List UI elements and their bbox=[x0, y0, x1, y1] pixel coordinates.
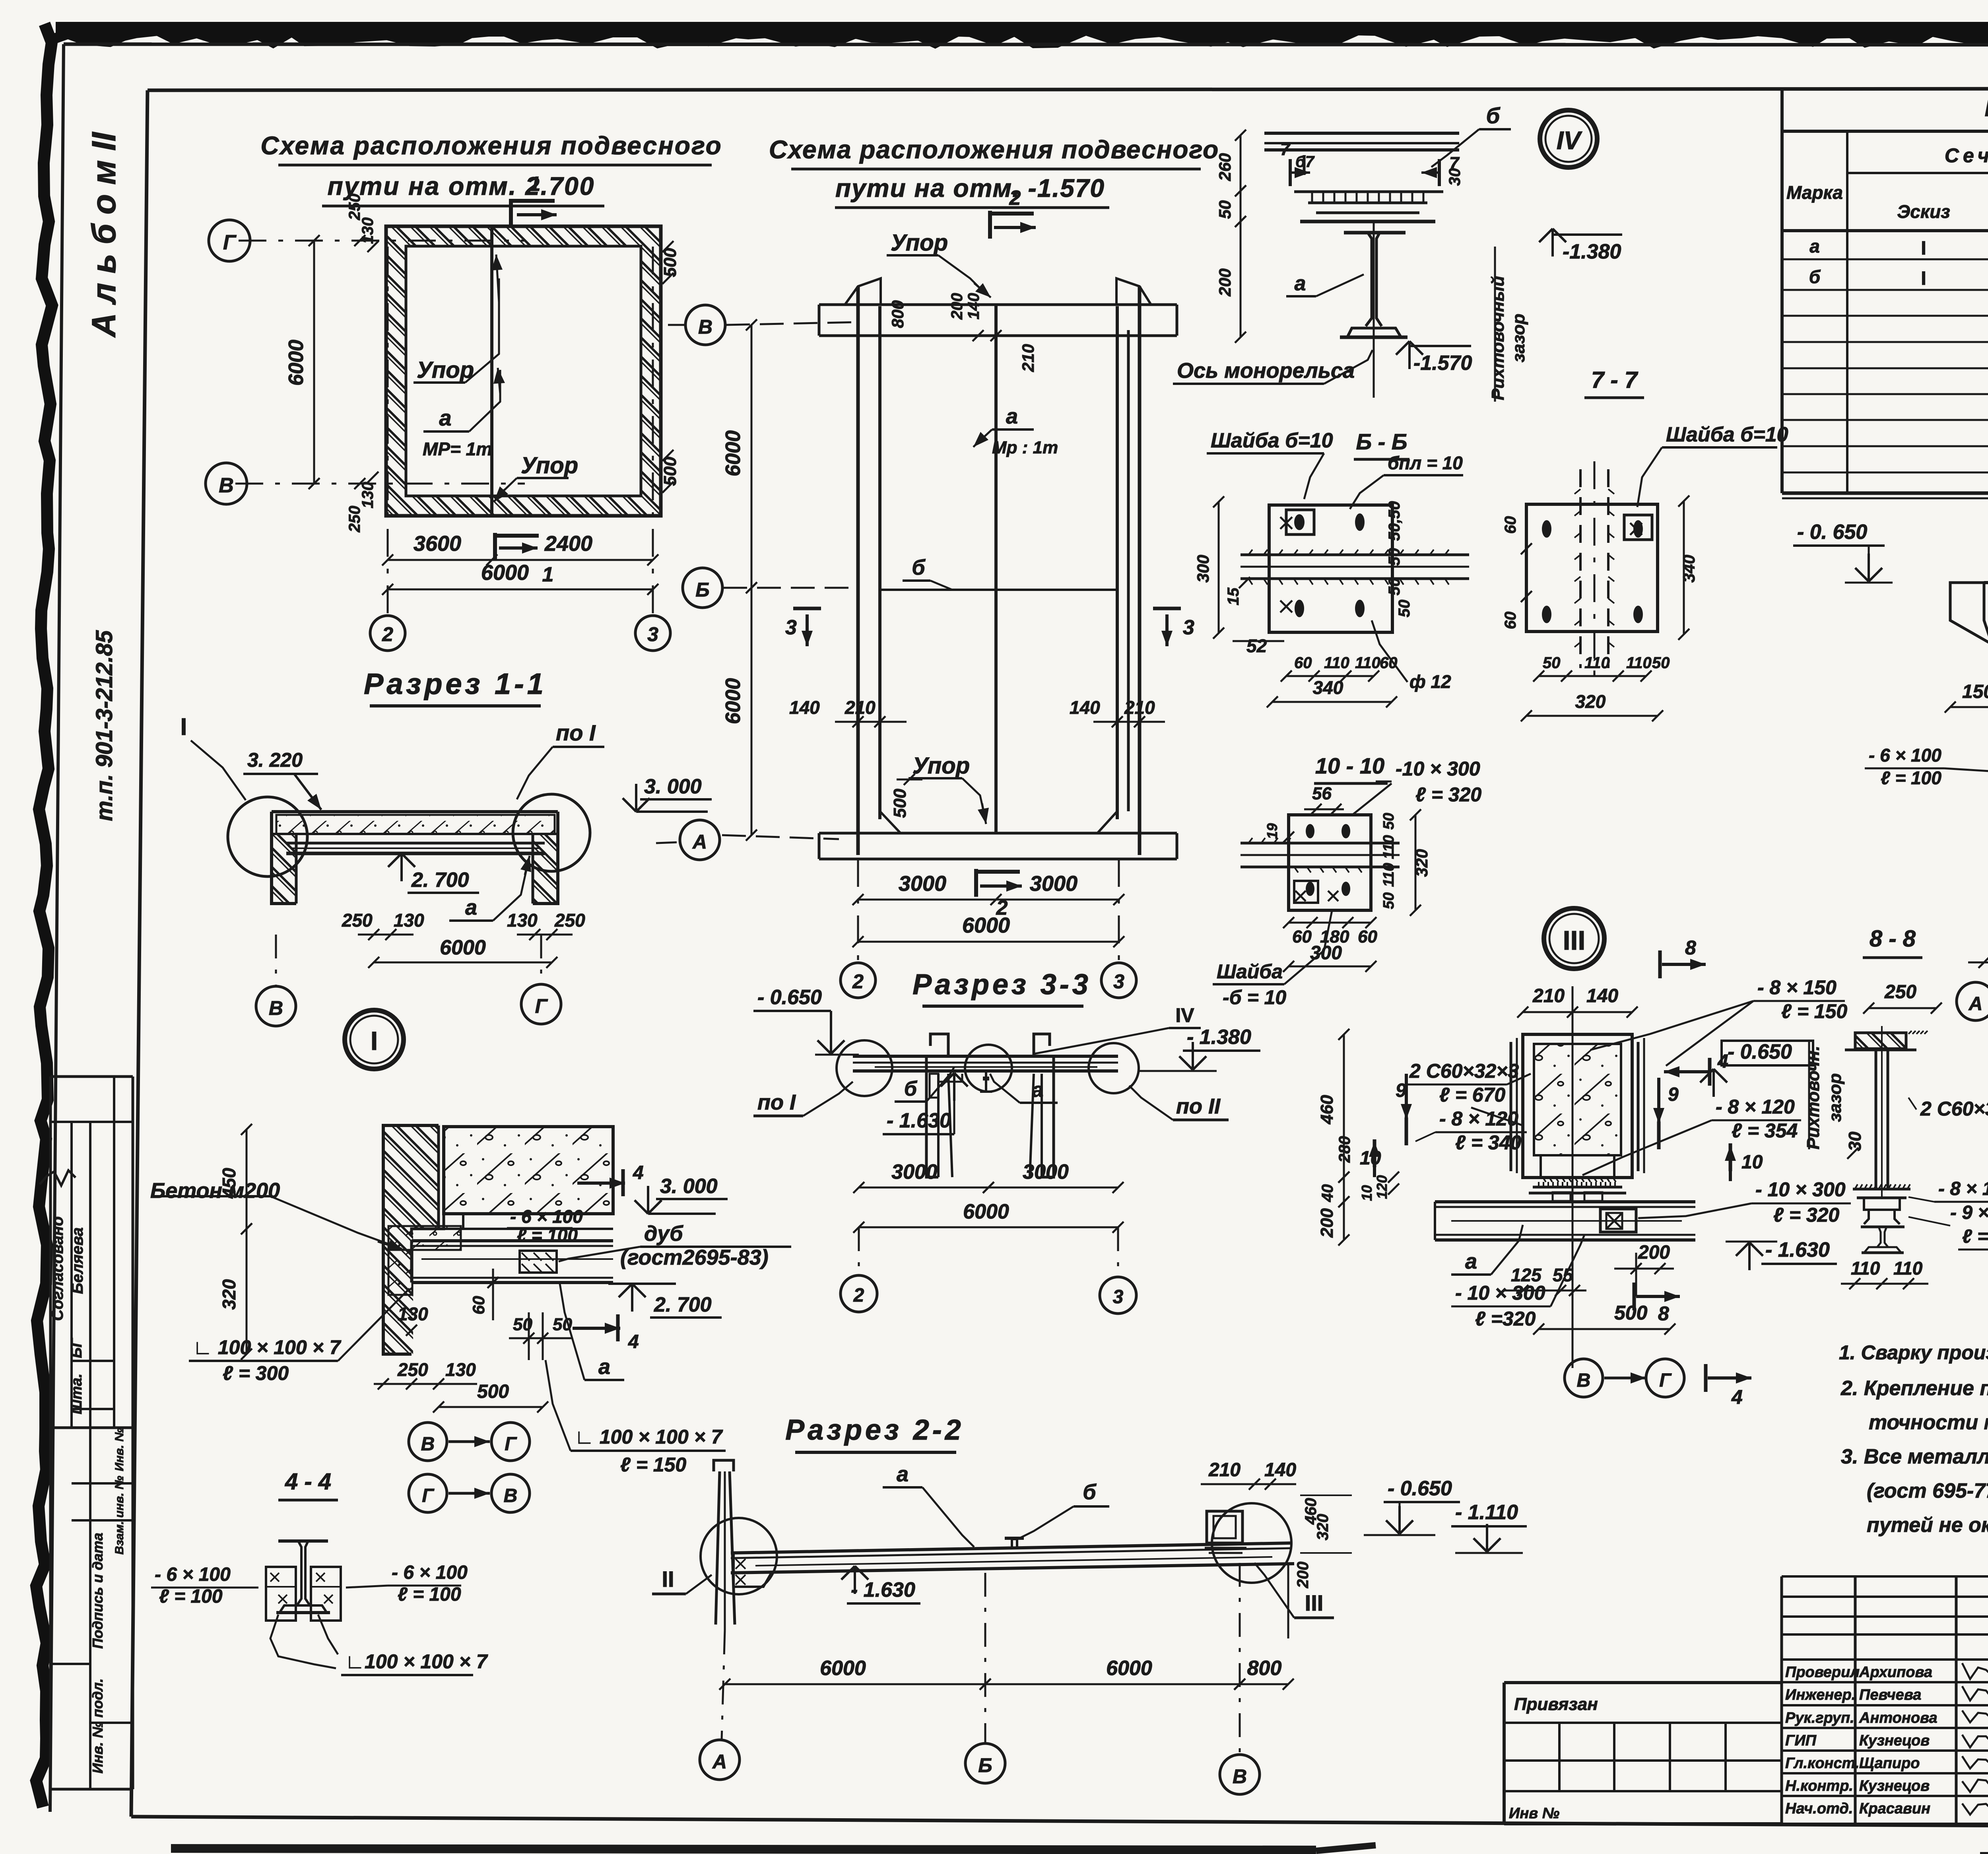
node III base plates bbox=[1529, 1182, 1626, 1201]
svg-text:3000: 3000 bbox=[891, 1160, 938, 1184]
detail 10-10 dims bottom bbox=[1283, 917, 1377, 972]
svg-text:130: 130 bbox=[507, 910, 538, 931]
svg-text:6000: 6000 bbox=[722, 430, 745, 476]
node I label dub bbox=[559, 1222, 791, 1269]
detail IV label b bbox=[1431, 103, 1511, 167]
label 6-6 bbox=[1354, 429, 1409, 459]
razrez 2-2 left column bbox=[714, 1460, 735, 1631]
svg-text:110: 110 bbox=[1355, 654, 1380, 672]
svg-text:В: В bbox=[698, 316, 712, 338]
plan 2.700 upor label bottom bbox=[494, 453, 578, 502]
razrez 2-2 dims 210 140 bbox=[1201, 1459, 1296, 1490]
razrez 2-2 label b bbox=[1018, 1480, 1109, 1539]
node I elev 2.700 bbox=[608, 1284, 722, 1318]
svg-text:6000: 6000 bbox=[963, 1200, 1009, 1223]
svg-text:ℓ = 100: ℓ = 100 bbox=[159, 1586, 223, 1607]
plan 2.700 section mark 1 bottom bbox=[495, 533, 553, 586]
node I label L100x100x7 l300 bbox=[189, 1288, 410, 1384]
svg-text:пути на отм. 2.700: пути на отм. 2.700 bbox=[328, 172, 595, 200]
node III beam below bbox=[1435, 1202, 1695, 1240]
node I dim 60 bbox=[469, 1269, 499, 1320]
svg-text:Шайба: Шайба bbox=[1217, 960, 1283, 983]
razrez 2-2 beam bbox=[731, 1543, 1294, 1573]
svg-text:Г: Г bbox=[505, 1434, 517, 1455]
svg-text:2. Крепление подкранового пути: 2. Крепление подкранового пути-болтовое.… bbox=[1840, 1377, 1988, 1400]
section 8-8 bottom assembly bbox=[1853, 1184, 1910, 1224]
plan 2.700 axis line 3 bbox=[652, 247, 654, 615]
svg-text:250: 250 bbox=[397, 1359, 428, 1380]
svg-text:Гл.конст.: Гл.конст. bbox=[1785, 1755, 1859, 1772]
svg-text:60: 60 bbox=[1292, 927, 1312, 946]
svg-text:I: I bbox=[1921, 268, 1926, 289]
razrez 3-3 label b bbox=[895, 1067, 954, 1102]
svg-text:- 10 × 300: - 10 × 300 bbox=[1755, 1178, 1846, 1201]
svg-text:I: I bbox=[181, 713, 187, 740]
razrez 1-1 left wall bbox=[272, 812, 296, 904]
svg-text:30: 30 bbox=[1845, 1131, 1865, 1151]
detail 6-6 bpl label bbox=[1350, 453, 1463, 509]
svg-text:200: 200 bbox=[1215, 268, 1234, 297]
svg-text:460: 460 bbox=[1317, 1095, 1337, 1125]
svg-text:2: 2 bbox=[853, 1285, 864, 1306]
left margin label Album II bbox=[85, 132, 122, 338]
svg-text:а: а bbox=[1006, 404, 1018, 428]
section 4-4 label angle bbox=[270, 1615, 488, 1675]
svg-text:19: 19 bbox=[1264, 823, 1280, 839]
node III section 4 bbox=[1664, 1051, 1728, 1086]
svg-text:4: 4 bbox=[1717, 1051, 1728, 1072]
svg-text:- 8 × 150: - 8 × 150 bbox=[1757, 976, 1837, 999]
razrez 1-1 label a bbox=[449, 856, 531, 921]
svg-text:Рихтовочный: Рихтовочный bbox=[1488, 276, 1508, 400]
svg-text:ГИП: ГИП bbox=[1785, 1732, 1817, 1749]
razrez 2-2 dim 800 bbox=[1234, 1657, 1294, 1690]
detail IV center line bbox=[1373, 223, 1375, 398]
node I label -6x100 bbox=[507, 1206, 583, 1246]
svg-text:Инв. №: Инв. № bbox=[113, 1428, 126, 1471]
node III label 2S60 bbox=[1406, 1060, 1531, 1125]
svg-text:2: 2 bbox=[382, 623, 393, 645]
svg-text:800: 800 bbox=[1247, 1657, 1282, 1680]
node III section 9 marks bbox=[1396, 1074, 1679, 1149]
svg-text:250: 250 bbox=[346, 506, 363, 533]
svg-text:б: б bbox=[1083, 1480, 1097, 1504]
node III section 4 bottom bbox=[1706, 1364, 1751, 1408]
detail IV os monorelsa bbox=[1173, 350, 1373, 384]
detail 10-10 plate bbox=[1289, 815, 1371, 910]
svg-text:IV: IV bbox=[1557, 126, 1583, 155]
svg-text:- 9 × 320: - 9 × 320 bbox=[1950, 1202, 1988, 1223]
svg-text:Ось монорельса: Ось монорельса bbox=[1177, 359, 1355, 383]
svg-text:340: 340 bbox=[1313, 677, 1343, 698]
plan -1.570 section mark 2 bottom bbox=[976, 869, 1022, 919]
svg-text:ℓ = 150: ℓ = 150 bbox=[620, 1454, 686, 1476]
razrez 2-2 label III bbox=[1254, 1563, 1334, 1618]
detail 6-6 dims right bbox=[1386, 501, 1413, 617]
svg-text:6000: 6000 bbox=[285, 340, 308, 386]
privyazan label bbox=[1514, 1695, 1598, 1714]
svg-text:а: а bbox=[465, 896, 477, 919]
plan 2.700 label a Mr=1t bbox=[423, 368, 505, 459]
svg-text:а: а bbox=[1032, 1079, 1044, 1102]
svg-text:-1.570: -1.570 bbox=[1413, 352, 1472, 375]
plan -1.570 label b bbox=[903, 556, 952, 590]
svg-text:110: 110 bbox=[1324, 654, 1349, 672]
section 8-8 dims 110 110 bbox=[1841, 1258, 1928, 1289]
svg-text:ф 12: ф 12 bbox=[1409, 671, 1451, 692]
svg-text:бпл = 10: бпл = 10 bbox=[1388, 453, 1463, 473]
razrez 2-2 node circle right bbox=[1212, 1503, 1291, 1583]
label 4-4 bbox=[278, 1469, 338, 1500]
svg-text:3600: 3600 bbox=[414, 532, 461, 556]
razrez 3-3 label IV bbox=[1034, 1004, 1201, 1054]
svg-text:120: 120 bbox=[1374, 1175, 1390, 1199]
sheet torn top edge bbox=[56, 22, 1988, 43]
svg-text:6000: 6000 bbox=[1106, 1657, 1152, 1680]
svg-text:260: 260 bbox=[1215, 153, 1234, 181]
plan 2.700 axis circle V right bbox=[668, 305, 859, 345]
node II label -6x100 bbox=[1865, 745, 1988, 788]
plan 2.700 small dims top left bbox=[346, 194, 379, 252]
sheet torn left edge bbox=[36, 24, 52, 1807]
razrez 2-2 label a bbox=[883, 1462, 974, 1547]
node III label -8x150 bbox=[1590, 976, 1847, 1066]
svg-text:ℓ = 100: ℓ = 100 bbox=[1881, 768, 1941, 788]
detail 10-10 label -10x300 bbox=[1352, 758, 1481, 815]
detail IV hanger plates bbox=[1294, 192, 1443, 222]
svg-text:Г: Г bbox=[1659, 1370, 1672, 1391]
vedomost title bbox=[1985, 95, 1988, 123]
svg-text:по I: по I bbox=[556, 720, 596, 745]
svg-text:Щапиро: Щапиро bbox=[1859, 1755, 1920, 1772]
detail 10-10 shayba label bbox=[1213, 911, 1332, 1009]
axis dim 6000 vertical lower bbox=[722, 582, 757, 841]
node II column top flare bbox=[1950, 583, 1988, 644]
svg-text:130: 130 bbox=[398, 1304, 428, 1324]
svg-text:Г: Г bbox=[223, 231, 237, 254]
signature block grid bbox=[1782, 1576, 1988, 1824]
stamp text Inv N podl bbox=[89, 1678, 106, 1773]
node I rail beam bbox=[412, 1241, 613, 1283]
inv no label bbox=[1509, 1805, 1559, 1822]
svg-text:3000: 3000 bbox=[899, 872, 946, 896]
node I callout circle bbox=[345, 1010, 404, 1069]
svg-text:2 С60×32×3: 2 С60×32×3 bbox=[1409, 1060, 1519, 1082]
razrez 1-1 slab bbox=[272, 812, 558, 853]
detail IV small marks top bbox=[1295, 153, 1315, 175]
svg-text:110: 110 bbox=[1584, 654, 1610, 672]
razrez 2-2 node circle left bbox=[701, 1518, 777, 1594]
svg-text:Архипова: Архипова bbox=[1859, 1664, 1932, 1681]
node I label a bbox=[560, 1284, 624, 1380]
plan -1.570 axis circle 3 bbox=[1101, 859, 1136, 998]
svg-text:т.п. 901-3-212.85: т.п. 901-3-212.85 bbox=[91, 630, 117, 821]
razrez 2-2 dim 6000 right bbox=[980, 1657, 1245, 1690]
svg-text:450: 450 bbox=[219, 1168, 239, 1199]
detail IV section 7 marks bbox=[1280, 140, 1464, 186]
node II axis pair AB bbox=[1957, 982, 1988, 1020]
node III label a bbox=[1451, 1225, 1523, 1275]
razrez 3-3 label a bbox=[990, 1074, 1058, 1103]
svg-text:- 1.630: - 1.630 bbox=[887, 1109, 951, 1132]
razrez 2-2 elev -1.110 bbox=[1451, 1501, 1527, 1553]
detail IV dims left bbox=[1215, 130, 1246, 343]
note line 4 bbox=[1841, 1445, 1988, 1468]
plan 2.700 bottom dims bbox=[382, 532, 658, 595]
svg-text:В: В bbox=[421, 1434, 435, 1455]
svg-text:50: 50 bbox=[1396, 600, 1413, 618]
svg-text:В: В bbox=[269, 997, 283, 1019]
svg-text:III: III bbox=[1563, 925, 1586, 956]
node I floor band bbox=[388, 1226, 461, 1295]
svg-text:II: II bbox=[662, 1566, 674, 1592]
plan 2.700 small dims right bbox=[660, 241, 680, 493]
razrez 2-2 title bbox=[785, 1414, 964, 1452]
svg-text:по II: по II bbox=[1176, 1094, 1221, 1118]
svg-text:210: 210 bbox=[1124, 697, 1155, 718]
svg-text:50: 50 bbox=[1215, 200, 1234, 219]
stamp text Podpis i data bbox=[89, 1533, 106, 1649]
svg-text:IV: IV bbox=[1175, 1004, 1194, 1026]
plan -1.570 top beam bbox=[819, 278, 1177, 336]
razrez 3-3 elev -1.380 right bbox=[1140, 1026, 1260, 1071]
svg-text:В: В bbox=[219, 474, 234, 497]
svg-text:Н.контр.: Н.контр. bbox=[1785, 1778, 1853, 1794]
node II dim 150 bbox=[1945, 681, 1988, 713]
svg-text:Инв №: Инв № bbox=[1509, 1805, 1559, 1822]
svg-text:50,50: 50,50 bbox=[1386, 501, 1403, 541]
svg-text:3: 3 bbox=[647, 623, 658, 645]
razrez 2-2 dims right bbox=[1294, 1495, 1352, 1588]
svg-text:ℓ = 340: ℓ = 340 bbox=[1455, 1131, 1521, 1154]
node III elev -0.650 bbox=[1700, 1040, 1813, 1097]
svg-text:- 1.630: - 1.630 bbox=[851, 1578, 915, 1601]
detail 6-6 dim 52 bbox=[1233, 635, 1284, 656]
detail 7-7 dims bottom bbox=[1521, 654, 1670, 721]
node I section 4 marks bbox=[573, 1162, 644, 1353]
razrez 1-1 dims bottom bbox=[342, 910, 585, 968]
svg-text:8: 8 bbox=[1685, 937, 1696, 959]
svg-text:50: 50 bbox=[1380, 813, 1397, 830]
svg-text:Г: Г bbox=[535, 995, 548, 1017]
plan 2.700 axis circle V bbox=[206, 463, 247, 504]
svg-text:Беляева: Беляева bbox=[69, 1227, 86, 1294]
svg-text:Разрез 3-3: Разрез 3-3 bbox=[912, 969, 1091, 1001]
svg-text:- 8 × 120: - 8 × 120 bbox=[1439, 1108, 1518, 1130]
svg-text:50: 50 bbox=[1386, 578, 1403, 596]
svg-text:Проверил: Проверил bbox=[1785, 1664, 1860, 1681]
svg-text:500: 500 bbox=[890, 789, 910, 818]
svg-text:Нач.отд.: Нач.отд. bbox=[1785, 1800, 1853, 1817]
plan -1.570 monorail line bbox=[994, 305, 998, 833]
svg-text:200: 200 bbox=[1317, 1208, 1337, 1238]
razrez 2-2 label II bbox=[652, 1566, 712, 1594]
svg-text:по I: по I bbox=[757, 1090, 796, 1114]
detail 10-10 dim 56 bbox=[1304, 784, 1344, 815]
detail 6-6 beam through bbox=[1241, 550, 1469, 585]
plan 2.700 small dims bottom left bbox=[346, 472, 379, 532]
section 8-8 label 2S60 right bbox=[1908, 1098, 1988, 1120]
svg-text:250: 250 bbox=[346, 194, 363, 221]
detail 10-10 dim 19 bbox=[1264, 823, 1294, 843]
svg-text:(гост 695-77) за 2 раза. Езд: (гост 695-77) за 2 раза. Ездовую поверхн… bbox=[1867, 1479, 1988, 1502]
node I dim 130 mid bbox=[398, 1304, 428, 1336]
svg-text:130: 130 bbox=[359, 482, 377, 509]
node I beton label bbox=[150, 1179, 404, 1251]
plan -1.570 section mark 2 top bbox=[990, 187, 1036, 239]
plan -1.570 dims 140 210 right bbox=[1070, 697, 1165, 727]
label 7-7 bbox=[1584, 367, 1644, 398]
svg-text:зазор: зазор bbox=[1509, 314, 1528, 363]
razrez 3-3 label po II right bbox=[1129, 1086, 1229, 1120]
svg-text:∟100 × 100 × 7: ∟100 × 100 × 7 bbox=[345, 1650, 488, 1673]
detail 7-7 plate bbox=[1526, 504, 1658, 632]
razrez 2-2 axis circle V bbox=[1220, 1563, 1260, 1794]
razrez 3-3 monorail stub bbox=[980, 1071, 992, 1092]
svg-text:Красавин: Красавин bbox=[1859, 1800, 1930, 1817]
svg-text:Бетон м200: Бетон м200 bbox=[150, 1179, 280, 1203]
svg-text:а: а bbox=[598, 1355, 610, 1379]
section 4-4 label left bbox=[151, 1564, 258, 1607]
svg-text:- 6 × 100: - 6 × 100 bbox=[155, 1564, 231, 1585]
razrez 1-1 node circle left bbox=[228, 797, 307, 876]
svg-text:140: 140 bbox=[1070, 697, 1100, 718]
svg-text:Разрез 1-1: Разрез 1-1 bbox=[364, 667, 547, 700]
node I axis pair GV bbox=[409, 1474, 530, 1512]
svg-text:3: 3 bbox=[1113, 1287, 1124, 1308]
svg-text:ℓ = 150: ℓ = 150 bbox=[1781, 1000, 1847, 1022]
node III dims top bbox=[1517, 985, 1638, 1018]
svg-text:Кузнецов: Кузнецов bbox=[1859, 1732, 1930, 1749]
plan 2.700 title bbox=[260, 131, 722, 206]
svg-text:пути на отм. -1.570: пути на отм. -1.570 bbox=[835, 174, 1105, 202]
svg-text:- 6 × 100: - 6 × 100 bbox=[510, 1206, 583, 1227]
svg-text:130: 130 bbox=[394, 910, 424, 931]
inner frame left line bbox=[131, 90, 148, 1817]
svg-text:150: 150 bbox=[1962, 681, 1988, 702]
detail 7-7 bolts bbox=[1542, 515, 1652, 623]
node III label -8x120 l354 bbox=[1582, 1096, 1801, 1175]
node III section 8 bottom bbox=[1634, 1283, 1680, 1325]
razrez 1-1 label I bbox=[181, 713, 246, 800]
razrez 3-3 elev -1.630 bbox=[883, 1073, 968, 1134]
node III label rihtovochn bbox=[1804, 1042, 1865, 1159]
svg-text:Б: Б bbox=[978, 1754, 992, 1776]
axis circle A between plans bbox=[680, 820, 839, 860]
svg-text:(гост2695-83): (гост2695-83) bbox=[620, 1246, 769, 1269]
plan 2.700 axis line 2 bbox=[387, 247, 389, 615]
vedomost header Marka bbox=[1786, 182, 1843, 203]
svg-text:БГ: БГ bbox=[68, 1337, 85, 1358]
razrez 1-1 elev 2.700 bbox=[388, 853, 479, 893]
svg-text:9: 9 bbox=[1396, 1080, 1406, 1101]
label 8-8 bbox=[1863, 926, 1922, 958]
svg-text:4: 4 bbox=[1731, 1386, 1743, 1408]
razrez 3-3 elev -0.650 left bbox=[753, 986, 859, 1055]
svg-text:6000: 6000 bbox=[481, 561, 529, 585]
note line 2 bbox=[1840, 1377, 1988, 1400]
svg-text:А л ь б о м II: А л ь б о м II bbox=[85, 132, 122, 338]
svg-text:500: 500 bbox=[477, 1381, 509, 1402]
svg-text:7 - 7: 7 - 7 bbox=[1591, 367, 1639, 393]
stamp table outline bbox=[50, 1077, 133, 1789]
svg-text:а: а bbox=[1295, 272, 1306, 295]
detail IV rihtovochny zazor bbox=[1488, 247, 1528, 402]
svg-text:- 8 × 120: - 8 × 120 bbox=[1716, 1096, 1795, 1118]
svg-text:50: 50 bbox=[1380, 892, 1397, 909]
svg-text:9: 9 bbox=[1668, 1084, 1679, 1105]
plan -1.570 title bbox=[769, 135, 1219, 208]
svg-text:- 1.380: - 1.380 bbox=[1187, 1026, 1251, 1049]
plan -1.570 mid line bbox=[880, 589, 1117, 591]
detail 6-6 bolts bbox=[1280, 513, 1365, 617]
razrez 1-1 axis circle V bbox=[256, 935, 296, 1026]
plan -1.570 bottom dims bbox=[852, 872, 1124, 947]
svg-text:Эскиз: Эскиз bbox=[1897, 201, 1950, 222]
svg-text:280: 280 bbox=[1336, 1136, 1353, 1163]
svg-text:ℓ = 354: ℓ = 354 bbox=[1732, 1119, 1798, 1142]
razrez 2-2 right aux line bbox=[1287, 1563, 1289, 1638]
detail 6-6 phi12 label bbox=[1372, 620, 1451, 692]
svg-text:10 - 10: 10 - 10 bbox=[1315, 753, 1384, 778]
detail 7-7 vertical beam dashed bbox=[1574, 461, 1614, 676]
svg-text:10: 10 bbox=[1741, 1152, 1763, 1173]
svg-text:Подпись и дата: Подпись и дата bbox=[89, 1533, 106, 1649]
plan 2.700 axis line G bbox=[239, 240, 525, 242]
plan 2.700 axis line V bbox=[235, 483, 525, 485]
svg-text:Шта.: Шта. bbox=[68, 1374, 85, 1415]
section 4-4 label right bbox=[346, 1562, 468, 1605]
svg-text:130: 130 bbox=[445, 1359, 476, 1380]
svg-text:ℓ = 320: ℓ = 320 bbox=[1773, 1204, 1839, 1226]
svg-text:- 0.650: - 0.650 bbox=[757, 986, 822, 1009]
svg-text:ℓ = 670: ℓ = 670 bbox=[1439, 1084, 1505, 1106]
svg-text:10: 10 bbox=[1360, 1148, 1381, 1169]
svg-text:ℓ = 300: ℓ = 300 bbox=[223, 1362, 289, 1384]
label 10-10 bbox=[1314, 753, 1388, 783]
svg-text:3. 220: 3. 220 bbox=[247, 749, 303, 771]
svg-text:Привязан: Привязан bbox=[1514, 1695, 1598, 1714]
razrez 1-1 dim 3.220 bbox=[243, 749, 321, 810]
svg-text:3000: 3000 bbox=[1030, 872, 1077, 896]
svg-text:10: 10 bbox=[1359, 1185, 1375, 1201]
note line 5 bbox=[1867, 1479, 1988, 1502]
plan -1.570 section 3 right bbox=[1153, 608, 1194, 646]
detail 6-6 washer box bbox=[1286, 510, 1314, 534]
plan 2.700 axis circle 2 bbox=[370, 616, 405, 651]
svg-text:250: 250 bbox=[554, 910, 585, 931]
svg-text:Взам. инв. №: Взам. инв. № bbox=[113, 1476, 126, 1555]
plan -1.570 small dims top bbox=[888, 293, 1037, 372]
detail 6-6 shayba label bbox=[1207, 429, 1333, 499]
detail 6-6 plate bbox=[1269, 505, 1392, 632]
svg-text:- 0.650: - 0.650 bbox=[1388, 1477, 1452, 1500]
svg-text:320: 320 bbox=[1314, 1514, 1332, 1541]
detail IV circle bbox=[1540, 110, 1597, 167]
vedomost header Eskiz bbox=[1897, 201, 1950, 222]
svg-text:а: а bbox=[1465, 1250, 1477, 1273]
svg-text:3: 3 bbox=[785, 616, 797, 639]
detail 10-10 dims right bbox=[1380, 809, 1431, 916]
svg-text:3: 3 bbox=[1183, 616, 1194, 639]
svg-text:110: 110 bbox=[1851, 1258, 1880, 1279]
svg-text:2400: 2400 bbox=[544, 532, 592, 556]
detail IV monorail I-beam bbox=[1340, 233, 1408, 337]
node I dims 50 50 bbox=[509, 1312, 573, 1360]
svg-text:Схема расположения подвесног: Схема расположения подвесного bbox=[769, 135, 1219, 164]
svg-text:300: 300 bbox=[1310, 943, 1342, 964]
node II elev -0.650 bbox=[1793, 521, 1893, 583]
